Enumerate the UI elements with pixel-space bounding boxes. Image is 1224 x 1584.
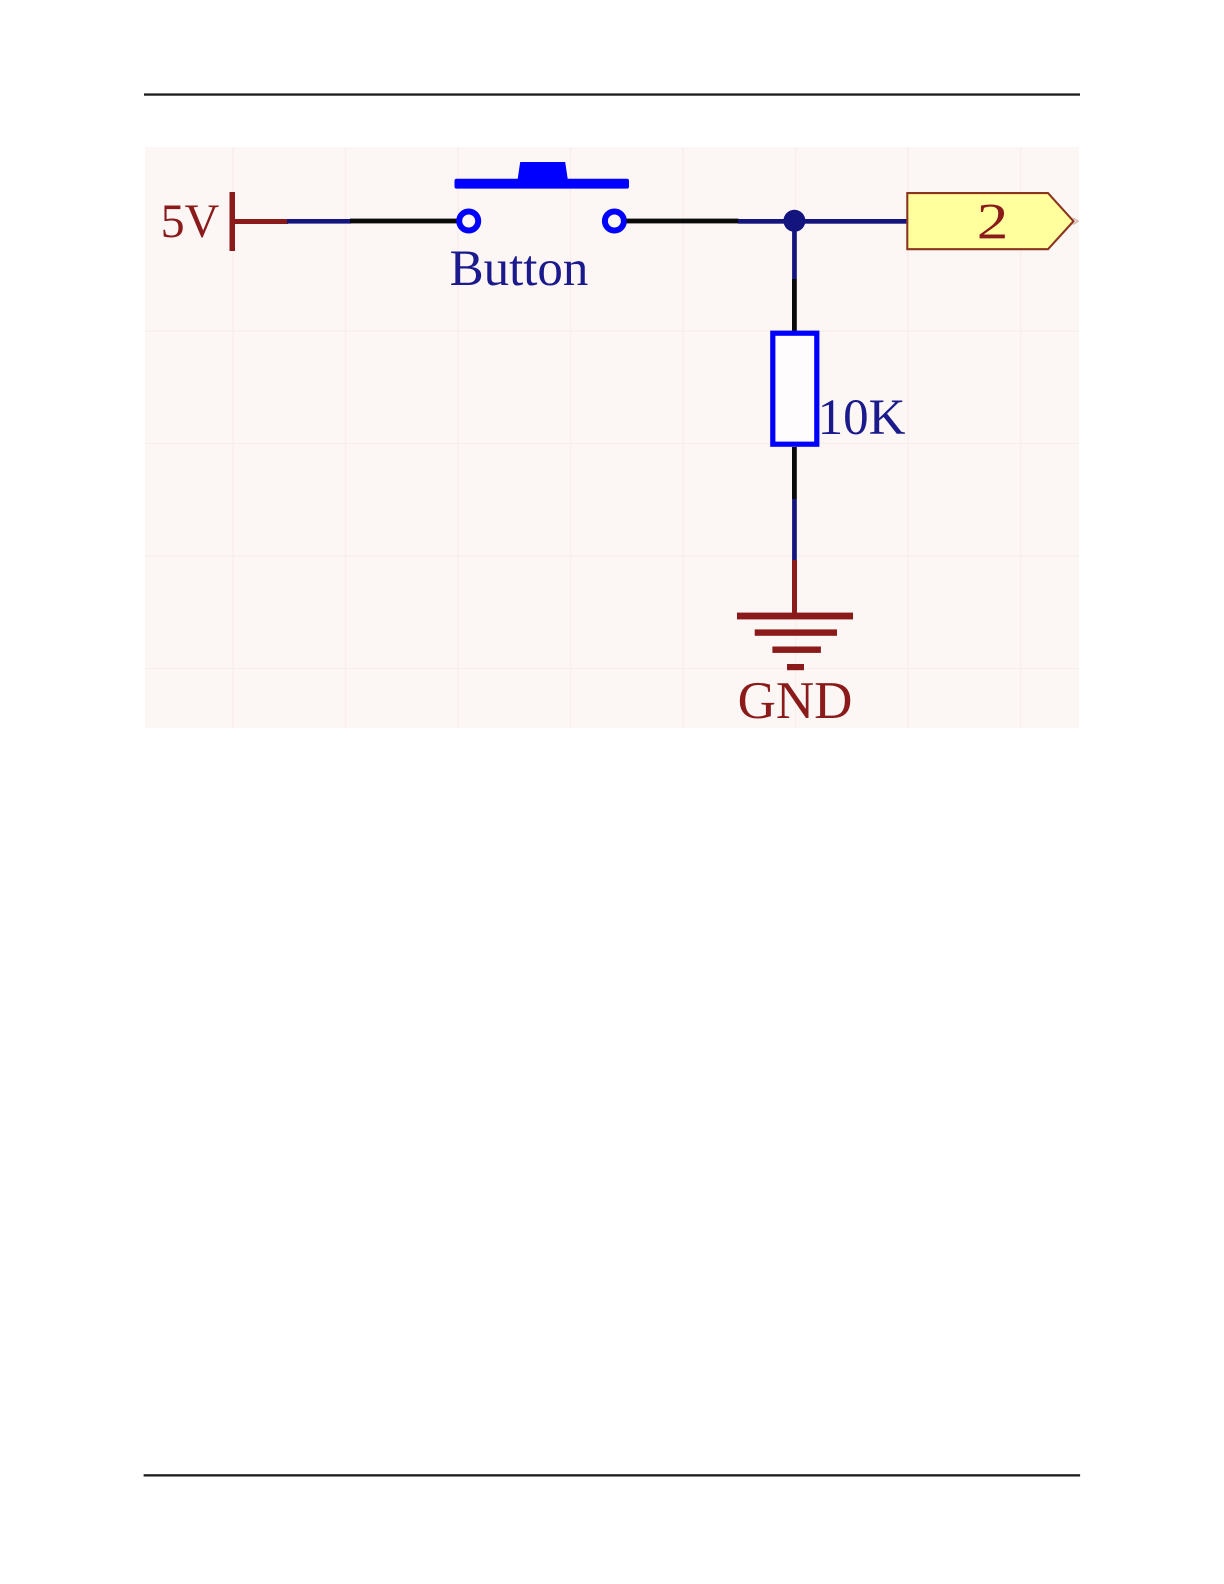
wire 5V red segment [233, 219, 288, 224]
svg-text:Button: Button [450, 241, 589, 297]
wire navy segment left [287, 219, 351, 224]
button S1 pin 1 terminal circle [459, 212, 478, 231]
ground bar 2 [755, 629, 837, 635]
ground bar 1 [737, 613, 853, 620]
pin connector 2 body [907, 193, 1073, 249]
svg-text:2: 2 [977, 194, 1009, 250]
button S1 actuator bar [455, 179, 630, 189]
ground bar 4 [787, 664, 804, 670]
wire button pin2 to node black segment [627, 219, 739, 224]
schematic canvas background [145, 147, 1079, 728]
wire black segment to button pin 1 [350, 219, 458, 224]
button S1 pin 2 terminal circle [605, 212, 624, 231]
wire navy segment into junction and to pin connector [738, 219, 908, 224]
junction node [783, 210, 805, 232]
svg-text:10K: 10K [818, 390, 906, 446]
wire red segment into ground [792, 560, 797, 615]
svg-text:GND: GND [738, 672, 853, 730]
wire down black segment to resistor [792, 279, 797, 331]
power rail 5V bar [230, 192, 236, 251]
bottom rule [144, 1474, 1081, 1476]
svg-text:5V: 5V [161, 195, 220, 248]
resistor R1 10K body [773, 333, 817, 444]
wire navy segment above ground [792, 499, 797, 560]
wire resistor to ground black segment [792, 447, 797, 499]
top rule [144, 93, 1080, 95]
button S1 plunger [518, 162, 568, 180]
ground bar 3 [772, 647, 821, 653]
pin 2 wire stub tick [1073, 218, 1078, 225]
wire junction down navy segment [792, 225, 797, 279]
